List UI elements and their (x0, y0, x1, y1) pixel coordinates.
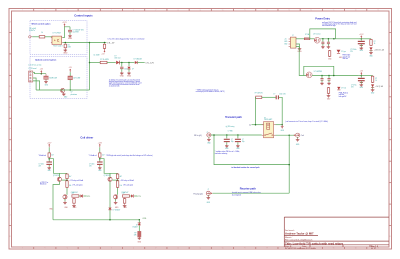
wire Q1 left collector down (53, 181, 59, 219)
capacitor C? 100n (121, 63, 123, 67)
svg-text:F: F (10, 129, 11, 131)
svg-text:1k 1/4W: 1k 1/4W (94, 55, 100, 57)
flyback diode right leg (108, 208, 111, 210)
ground under relay coil (281, 125, 285, 132)
svg-text:0-24V in: 0-24V in (29, 30, 35, 32)
power +12V (left) (47, 142, 52, 147)
wire (69, 80, 71, 90)
wire (45, 78, 47, 81)
resistor R? 1k 1/4W (100, 61, 107, 63)
svg-text:10: 10 (222, 248, 224, 250)
resistor R4 (left) (73, 198, 75, 204)
wire +12V rail jog (right) (100, 159, 118, 174)
capacitor row1 a (322, 39, 324, 42)
resistor pulldown 10k (64, 44, 66, 49)
junction (328, 75, 330, 77)
svg-text:100n 1kV: 100n 1kV (279, 94, 285, 96)
svg-text:1: 1 (22, 10, 23, 12)
LED power row1 (337, 50, 341, 54)
capacitor C? 39p a (226, 135, 228, 138)
LED indicator D? (116, 61, 119, 65)
wire (right) (99, 147, 101, 152)
capacitor bypass on +12V (69, 27, 71, 30)
junction (288, 164, 290, 166)
wire from connector pin 3 (33, 78, 36, 90)
transistor Q2 NPN (left) (63, 195, 67, 199)
wire (359, 75, 373, 77)
svg-text:4: 4 (89, 248, 90, 250)
ground (138, 237, 142, 240)
svg-text:Optical control option: Optical control option (35, 59, 57, 62)
junction (226, 134, 228, 136)
wire (310, 38, 314, 40)
svg-text:4k7: 4k7 (123, 192, 126, 194)
svg-text:5: 5 (111, 248, 112, 250)
transistor Q? BC557 PNP (left) (57, 177, 61, 181)
wire opto emitter output (63, 42, 90, 44)
resistor R3 (right) (116, 180, 118, 188)
resistor R3 (left) (66, 180, 68, 188)
junction (128, 62, 130, 64)
diode base (right) (130, 195, 131, 197)
svg-text:100n: 100n (124, 68, 128, 70)
ground cap (left) (47, 167, 51, 170)
wire receive row (212, 192, 289, 194)
wire RF row (211, 134, 262, 136)
capacitor 100n (left) (46, 162, 52, 164)
junction (89, 42, 91, 44)
connector J? opto 4-pin (29, 71, 33, 82)
reverse protection row2 (306, 72, 312, 78)
svg-text:25V: 25V (350, 51, 353, 53)
snubber resistor R? 10R (256, 96, 262, 98)
svg-text:F: F (390, 129, 391, 131)
wire relay to coil connector (276, 134, 296, 136)
transistor Q2 NPN (right) (114, 195, 118, 199)
junction (117, 179, 119, 181)
resistor network block 2 (68, 76, 73, 80)
capacitor 100n (right) (97, 162, 103, 164)
svg-text:J? RX mod: J? RX mod (28, 68, 36, 70)
connector pin P6 Ctl In (29, 36, 33, 38)
svg-text:25V: 25V (89, 166, 92, 168)
resistor base drive (left) (72, 195, 79, 197)
note: control logic description (109, 78, 142, 87)
junction (288, 134, 290, 136)
ground (62, 93, 66, 96)
rail row1 (320, 38, 358, 40)
svg-text:CTL: CTL (87, 196, 90, 198)
svg-text:16: 16 (355, 10, 357, 12)
wire to CTL_5V label (90, 42, 107, 44)
resistor R series 1k (39, 36, 45, 38)
svg-text:U? TLP627: U? TLP627 (53, 32, 62, 34)
svg-text:Andrew Taylor @ MIT: Andrew Taylor @ MIT (285, 232, 314, 236)
svg-text:D?: D? (136, 224, 138, 226)
svg-text:Sheet: /: Sheet: / (285, 236, 293, 239)
resistor row2 stack (327, 87, 329, 94)
note PWR_FLAG row2 (339, 91, 348, 98)
junction (322, 38, 324, 40)
ground emitter (right) (115, 199, 117, 201)
note: receive path (232, 191, 261, 197)
junction (237, 134, 239, 136)
title block frame (284, 217, 389, 247)
svg-text:Wired control option: Wired control option (32, 23, 52, 26)
svg-text:D? 1N4148: D? 1N4148 (134, 59, 142, 61)
ground (372, 87, 374, 88)
wire to control label (right) (134, 195, 137, 197)
wire emitter (left) (58, 173, 60, 177)
coil return rail (53, 219, 139, 221)
svg-text:C? 100n: C? 100n (39, 164, 44, 166)
snubber capacitor C? (276, 95, 278, 99)
svg-text:10: 10 (222, 10, 224, 12)
wire to Q2 (right) (117, 188, 119, 195)
svg-text:C?: C? (273, 94, 275, 96)
wire snubber left leg down (255, 97, 257, 124)
diode series D? 1N4148 (135, 61, 137, 64)
svg-text:16: 16 (355, 248, 357, 250)
wire Q1 right collector down (109, 181, 111, 219)
power +5V (2) (69, 67, 73, 72)
svg-text:1k: 1k (375, 80, 377, 82)
svg-text:+12V: +12V (47, 142, 52, 144)
svg-text:C? TBD: C? TBD (228, 131, 233, 133)
reverse protection MOSFET/diode row1 (314, 37, 320, 43)
wire second pole down-left (214, 135, 289, 165)
svg-text:TODO order #: TODO order # (53, 45, 63, 47)
wire (119, 62, 134, 64)
power +5V arrow row2 (360, 71, 364, 76)
resistor base bias 4k7 (left) (48, 152, 50, 158)
svg-text:4k7: 4k7 (102, 154, 105, 156)
wire (262, 96, 276, 98)
note: wired input spec (29, 27, 36, 32)
row2 feed wire (296, 47, 306, 76)
junction (121, 62, 123, 64)
pin arrow (294, 134, 296, 136)
opto-isolator U? TLP627 (51, 36, 63, 44)
ground (44, 80, 48, 83)
resistor R2 (left) (66, 173, 68, 179)
svg-text:B: B (390, 43, 391, 45)
svg-text:Preamp (p2): Preamp (p2) (193, 193, 203, 196)
wire opto collector to +12V (63, 27, 70, 38)
ground (297, 137, 299, 138)
svg-text:7: 7 (155, 10, 156, 12)
wire (69, 72, 71, 76)
resistor pull 1k (104, 42, 106, 44)
wire +12V rail jog (left) (49, 159, 67, 174)
wire to Q2 (left) (66, 188, 68, 195)
wire (358, 38, 371, 40)
ground (127, 72, 132, 78)
transistor Q? BC557 PNP (right) (108, 177, 112, 181)
svg-text:11: 11 (244, 248, 246, 250)
capacitor row2 b (328, 76, 330, 79)
svg-text:11: 11 (244, 10, 246, 12)
resistor R4 (right) (123, 198, 125, 204)
svg-text:1k: 1k (374, 43, 376, 45)
resistor LED string row1 right (370, 39, 372, 46)
svg-text:39p: 39p (231, 141, 234, 143)
wire base node (left) (62, 179, 68, 181)
svg-text:Control inputs: Control inputs (74, 14, 93, 18)
relay K? DIP05-1A72-12L (262, 122, 276, 138)
resistor base bias 4k7 (right) (99, 152, 101, 158)
transistor Q? phototrans (61, 88, 65, 92)
svg-text:C? 2200u: C? 2200u (350, 49, 356, 51)
wire coil row right (276, 124, 283, 126)
wire coil node down to receive (288, 135, 290, 193)
wire from connector pin 4 (33, 81, 40, 90)
svg-text:R?: R? (374, 41, 376, 43)
note: snubber values (215, 151, 240, 155)
svg-text:1N4007: 1N4007 (133, 226, 138, 228)
junction (left) (48, 158, 50, 162)
wire base node (right) (112, 179, 118, 181)
svg-text:R? 10R 2W: R? 10R 2W (255, 93, 263, 95)
svg-text:4k7 1/4W: 4k7 1/4W (73, 78, 80, 80)
svg-text:13: 13 (288, 10, 290, 12)
note beside transistor (right) (120, 179, 134, 182)
LED +5V indicator (371, 84, 374, 87)
svg-text:COIL: COIL (143, 218, 147, 220)
note: transmit snubber (196, 88, 225, 93)
svg-text:J?: J? (292, 35, 294, 37)
svg-text:CTL: CTL (138, 196, 141, 198)
svg-text:10k: 10k (120, 185, 123, 187)
svg-text:3: 3 (67, 248, 68, 250)
ground cap (right) (98, 167, 102, 170)
connector Preamp (p2) (206, 191, 210, 195)
svg-text:4k7: 4k7 (120, 176, 123, 178)
junction (65, 42, 67, 44)
zener diode D? 12V (128, 63, 130, 67)
wire rail optical output (36, 89, 89, 91)
resistor / MOV in stack (138, 225, 140, 231)
ground (370, 50, 372, 51)
svg-text:8: 8 (178, 248, 179, 250)
wire stub to resistor block (45, 74, 47, 76)
bulk capacitor row2 (361, 75, 363, 77)
svg-text:E: E (390, 107, 391, 109)
svg-text:+12V: +12V (359, 34, 364, 36)
svg-text:GND: GND (284, 43, 287, 45)
resistor network block 1 (44, 76, 49, 79)
svg-text:9: 9 (200, 10, 201, 12)
ground (207, 195, 209, 196)
svg-text:Receive path: Receive path (240, 187, 256, 191)
resistor row2 right (371, 76, 373, 84)
svg-text:E: E (10, 107, 11, 109)
connector Coil out (296, 133, 300, 137)
svg-text:GND: GND (48, 170, 51, 172)
svg-text:12: 12 (266, 248, 268, 250)
svg-text:1k: 1k (41, 32, 43, 34)
svg-text:+12V: +12V (98, 142, 103, 144)
svg-text:+15: +15 (284, 38, 287, 40)
title block text (285, 230, 379, 250)
junction (109, 219, 111, 221)
svg-text:4k7: 4k7 (69, 176, 72, 178)
svg-text:5: 5 (111, 10, 112, 12)
main vertical wire joining control options (89, 43, 91, 91)
junction (213, 134, 215, 136)
capacitor row1 b (327, 39, 329, 42)
svg-text:C? 2200uF 50V: C? 2200uF 50V (73, 30, 85, 32)
pin arrow (211, 193, 213, 195)
svg-text:15: 15 (333, 248, 335, 250)
svg-text:KiCad E.D.A. eeschema 4.0.2-s: KiCad E.D.A. eeschema 4.0.2-stable (285, 247, 316, 250)
svg-text:6: 6 (133, 10, 134, 12)
bulk capacitor row1 (361, 38, 363, 40)
svg-text:J?: J? (207, 132, 209, 134)
svg-text:C? 100n: C? 100n (89, 164, 94, 166)
wire (45, 36, 52, 38)
fuse F? (304, 38, 310, 40)
svg-text:GND: GND (297, 51, 302, 53)
junction (328, 38, 330, 40)
svg-text:CTL_5V: CTL_5V (107, 42, 115, 44)
svg-text:* snubber values TBD for coil: * snubber values TBD for coil + 1 MHz; (215, 151, 240, 153)
svg-text:D? 1N4007: D? 1N4007 (113, 209, 121, 211)
svg-text:to identical section for secon: to identical section for second pole (231, 166, 259, 169)
wire snubber right leg down (279, 97, 282, 124)
note PWR_FLAG row1 (343, 54, 351, 61)
ground connector (296, 44, 300, 48)
svg-text:39p: 39p (242, 141, 245, 143)
resistor base drive (right) (123, 195, 130, 197)
svg-text:R?: R? (375, 78, 377, 80)
svg-text:B: B (10, 43, 11, 45)
rail row2 (312, 75, 359, 77)
svg-text:C?: C? (242, 139, 244, 141)
wire loop over regulator row2 (304, 66, 334, 75)
wire pin1 to +5V node (33, 71, 35, 73)
junction (321, 75, 323, 77)
svg-text:GND: GND (63, 52, 68, 54)
power +12V (right) (98, 142, 103, 147)
wire to control label (left) (84, 195, 87, 197)
svg-text:Id: 1/1: Id: 1/1 (371, 248, 376, 250)
svg-text:6: 6 (133, 248, 134, 250)
wire (137, 62, 145, 64)
wire emitter (right) (109, 173, 111, 177)
svg-text:RF In (p1): RF In (p1) (194, 135, 202, 137)
junction (right) (99, 158, 101, 162)
ground (120, 72, 125, 78)
svg-text:GND: GND (127, 75, 132, 77)
wire coil row left (252, 124, 264, 126)
svg-text:K?: K? (264, 117, 266, 119)
svg-text:16V: 16V (351, 86, 354, 88)
svg-text:CTL_5V is directly gated by "C: CTL_5V is directly gated by "Coil on" co… (108, 38, 145, 41)
svg-text:J?: J? (208, 189, 210, 191)
svg-text:12: 12 (266, 10, 268, 12)
svg-text:R? 1k 1/4W: R? 1k 1/4W (100, 59, 109, 61)
capacitor row2 a (321, 76, 323, 79)
connector J? power in (289, 37, 296, 48)
svg-text:Z?: Z? (132, 68, 134, 70)
power +12V arrow row1 (359, 34, 364, 39)
svg-text:14: 14 (310, 10, 312, 12)
svg-text:10k: 10k (69, 185, 72, 187)
svg-text:10k: 10k (67, 45, 70, 47)
svg-text:R?: R? (134, 232, 136, 234)
power +5V below resistor (101, 49, 105, 55)
note beside transistor (left) (69, 179, 83, 182)
wire to fuse (296, 38, 304, 40)
svg-text:2: 2 (44, 248, 45, 250)
svg-text:Q?: Q? (71, 92, 73, 94)
note: power entry description (322, 21, 356, 27)
svg-text:Coil driver: Coil driver (80, 136, 93, 140)
svg-text:C? 470u: C? 470u (351, 84, 357, 86)
ground (63, 49, 68, 55)
svg-text:+12V: +12V (62, 22, 67, 24)
svg-text:4k7: 4k7 (51, 154, 54, 156)
svg-text:D?: D? (115, 55, 117, 57)
svg-text:Transmit path: Transmit path (225, 115, 242, 119)
svg-text:GND: GND (98, 170, 101, 172)
svg-text:Title: Low-field T/R switch wi: Title: Low-field T/R switch with reed re… (285, 241, 344, 245)
svg-text:4k7: 4k7 (72, 192, 75, 194)
junction (139, 219, 141, 221)
power +5V (40, 69, 44, 74)
resistor R2 (right) (116, 173, 118, 179)
resistor LED row1 (328, 50, 330, 57)
svg-text:25V: 25V (39, 166, 42, 168)
svg-text:sim before ordering: sim before ordering (215, 153, 228, 155)
capacitor C? 39p b (237, 135, 239, 138)
svg-text:1: 1 (22, 248, 23, 250)
svg-text:3: 3 (67, 10, 68, 12)
junction (281, 124, 283, 126)
junction (89, 62, 91, 64)
diode D? clamp stack (138, 220, 140, 223)
LED row2 (337, 87, 340, 90)
svg-text:GND: GND (120, 75, 125, 77)
svg-text:GND: GND (284, 41, 287, 43)
diode base (left) (79, 195, 80, 197)
wire (107, 62, 116, 64)
wire (left) (48, 147, 50, 152)
svg-text:4: 4 (89, 10, 90, 12)
svg-text:17: 17 (377, 10, 379, 12)
junction (333, 75, 335, 77)
ground (68, 35, 73, 41)
svg-text:17: 17 (377, 248, 379, 250)
svg-text:low ESR: low ESR (73, 32, 80, 34)
svg-text:9: 9 (200, 248, 201, 250)
svg-text:GND: GND (68, 38, 73, 40)
svg-text:2: 2 (44, 10, 45, 12)
wire loop over regulator row1 (310, 29, 336, 39)
power +12V (62, 22, 67, 27)
svg-text:15: 15 (333, 10, 335, 12)
svg-text:CTL_12V: CTL_12V (145, 62, 154, 64)
note left of Q1 (40, 182, 49, 186)
svg-text:820R 1/4W: 820R 1/4W (49, 77, 57, 79)
wire (32, 36, 39, 38)
dashed box: Wired control option (30, 21, 87, 55)
connector RF In (p1) (207, 133, 211, 137)
svg-text:7: 7 (155, 248, 156, 250)
svg-text:C?: C? (231, 139, 233, 141)
junction (255, 124, 257, 126)
